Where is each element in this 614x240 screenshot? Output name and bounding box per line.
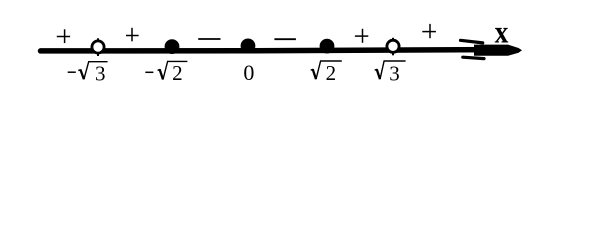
svg-text:2: 2 xyxy=(326,61,337,85)
svg-text:0: 0 xyxy=(243,60,254,85)
svg-text:x: x xyxy=(495,16,509,50)
svg-text:2: 2 xyxy=(172,61,183,85)
svg-text:3: 3 xyxy=(95,61,106,85)
svg-text:3: 3 xyxy=(389,61,400,85)
